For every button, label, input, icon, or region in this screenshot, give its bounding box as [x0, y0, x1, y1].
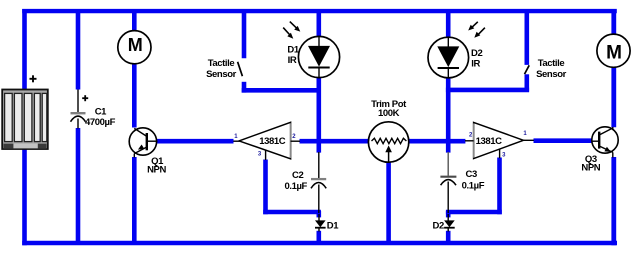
wire motor M2 top	[611, 9, 616, 34]
svg-text:M: M	[606, 42, 622, 63]
wire node C3 to diode D2	[446, 211, 451, 217]
wire pin3 to C2 node	[263, 210, 321, 215]
wire tactile right to node D2	[446, 88, 529, 93]
svg-text:4700µF: 4700µF	[85, 117, 116, 128]
svg-text:D2: D2	[433, 221, 444, 232]
diode D2 (bottom)	[444, 214, 455, 232]
light arrows into D1	[283, 22, 300, 39]
svg-text:2: 2	[469, 132, 473, 138]
transistor Q3	[592, 127, 619, 158]
wire left rail lower	[22, 148, 27, 246]
svg-text:100K: 100K	[378, 108, 400, 119]
IR LED D2	[428, 37, 469, 78]
svg-text:0.1µF: 0.1µF	[284, 181, 307, 192]
svg-text:IR: IR	[471, 58, 480, 69]
wire Q1 emitter to bottom rail	[132, 157, 137, 245]
svg-text:Tactile: Tactile	[538, 58, 565, 69]
svg-text:3: 3	[258, 151, 262, 157]
trim pot R1 100K	[368, 122, 408, 162]
svg-text:Sensor: Sensor	[206, 69, 237, 80]
svg-text:NPN: NPN	[581, 162, 600, 173]
svg-text:Sensor: Sensor	[536, 69, 567, 80]
wire tactile left top	[242, 9, 247, 58]
wire node C2 to diode D1	[316, 211, 321, 217]
wire U1 pin3 down	[263, 160, 268, 215]
wire trim pot to U2 pin2	[409, 139, 466, 144]
IR LED D1	[298, 36, 339, 77]
motor M (left)	[118, 31, 151, 64]
capacitor C1	[71, 90, 86, 129]
op-amp U2 1381C (right detector)	[465, 122, 534, 158]
op-amp U1 1381C (left detector)	[233, 122, 300, 160]
wire tactile left to node D1	[242, 88, 321, 93]
wire D2 LED top	[446, 9, 451, 37]
wire C1 top	[76, 9, 81, 90]
diode D1 (bottom)	[315, 214, 326, 232]
svg-text:2: 2	[292, 134, 296, 140]
capacitor C3	[440, 152, 456, 213]
svg-text:1381C: 1381C	[259, 136, 286, 147]
svg-text:3: 3	[502, 152, 506, 158]
tactile sensor switch (right)	[525, 65, 530, 74]
tactile sensor switch (left)	[238, 62, 243, 76]
wire left rail upper	[22, 9, 27, 91]
wire D1 LED top	[316, 9, 321, 36]
svg-text:1: 1	[234, 134, 238, 140]
motor M (right)	[597, 34, 630, 67]
svg-text:M: M	[128, 35, 143, 55]
plus sign of C1	[82, 95, 88, 101]
wire tactile right stub	[524, 74, 529, 91]
wire tactile left stub	[242, 82, 247, 93]
wire diode D1 to bottom rail	[316, 231, 321, 245]
svg-text:IR: IR	[288, 55, 297, 66]
wire bottom rail	[22, 241, 617, 246]
svg-text:1381C: 1381C	[476, 136, 503, 147]
svg-text:0.1µF: 0.1µF	[462, 180, 485, 191]
wire motor M1 top	[132, 9, 137, 31]
svg-text:C2: C2	[292, 170, 303, 181]
wire motor M2 to Q3 collector	[611, 67, 616, 127]
wire D1 LED down through node to C2	[316, 78, 321, 153]
wire motor M1 to Q1 collector	[132, 64, 137, 128]
wire U2 pin1 to Q3 base	[534, 138, 592, 143]
svg-text:D1: D1	[287, 45, 299, 56]
wire Q1 base to U1 pin1	[157, 139, 234, 144]
wire Q3 emitter to bottom rail	[611, 157, 616, 245]
wire C1 bottom	[76, 128, 81, 245]
capacitor C2	[311, 152, 326, 213]
svg-text:C1: C1	[95, 106, 107, 117]
wire D2 LED down through node to C3	[446, 79, 451, 153]
svg-text:Tactile: Tactile	[208, 58, 235, 69]
svg-text:C3: C3	[466, 169, 477, 180]
svg-text:D1: D1	[327, 221, 339, 232]
wire pin3 to C3 node	[446, 210, 502, 215]
wire tactile right top	[524, 9, 529, 65]
transistor Q1	[129, 128, 157, 158]
svg-text:NPN: NPN	[147, 165, 166, 176]
light arrows into D2	[468, 22, 485, 38]
wire trim pot wiper to bottom rail	[386, 163, 391, 246]
plus sign of panel	[30, 75, 37, 82]
wire top rail	[22, 9, 617, 13]
wire U2 pin3 down	[497, 158, 502, 215]
wire diode D2 to bottom rail	[446, 231, 451, 245]
solar panel B1	[2, 90, 48, 150]
svg-text:1: 1	[523, 131, 527, 137]
wire U1 pin2 to trim pot	[300, 139, 369, 144]
